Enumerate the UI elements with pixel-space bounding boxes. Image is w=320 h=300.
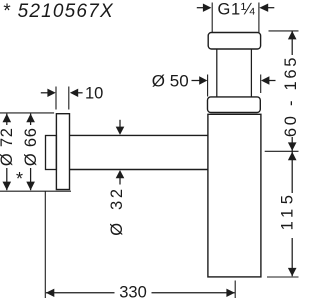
dia72/66 top extension line [0,112,54,114]
dia72 top arrowhead [3,114,12,123]
dia32 up arrowhead [116,170,125,178]
dia66 bottom arrowhead [26,182,35,191]
dia50 dim right arrowhead [261,76,269,84]
inlet pipe left edge [216,49,218,97]
G1 1/4 dim left arrowhead [203,4,212,12]
svg-text:Ø 66: Ø 66 [22,127,40,166]
330 left arrowhead [46,289,54,297]
svg-text:Ø 50: Ø 50 [152,72,189,91]
svg-text:330: 330 [119,283,147,300]
svg-text:Ø 72: Ø 72 [0,127,16,166]
wall escutcheon [56,114,69,190]
lower flange nut [208,97,261,113]
dia72 bottom arrowhead [3,182,12,191]
svg-text:G1¼: G1¼ [218,1,256,19]
dia66 dim line [30,114,32,191]
G1 1/4 dim left extension line [211,3,213,33]
dia32 top leader line [119,120,121,127]
white mask under 60-165 text [284,55,301,137]
dia66 top arrowhead [26,114,35,123]
10 dim right tail line [78,92,83,94]
115 dim bottom extension line [267,276,299,278]
330 dim line [46,292,235,294]
60-165 bottom arrowhead [288,142,297,150]
60-165 top arrowhead [288,31,297,40]
115 top arrowhead [288,152,297,160]
330 dim left extension line [44,191,46,298]
dia32 bottom leader line [119,178,121,185]
white mask under 115 text [281,193,300,238]
10 dim left extension line [55,87,57,110]
330 right arrowhead [226,289,234,297]
horizontal outlet pipe bottom edge [70,169,208,171]
white mask under 330 text [115,285,152,299]
svg-text:60 - 165: 60 - 165 [282,55,300,137]
10 dim right arrowhead [70,89,78,97]
G1 1/4 dim right extension line [258,3,260,33]
G1 1/4 dim right tail line [268,7,274,9]
svg-text:115: 115 [279,191,297,231]
white mask under dia72 text [1,125,14,168]
inlet pipe right edge [250,49,252,97]
dia50 dim right tail line [269,80,276,82]
330 dim right extension line [234,281,236,299]
siphon body [208,114,261,277]
svg-text:10: 10 [85,84,103,102]
10 dim right extension line [68,87,70,110]
10 dim left tail line [41,92,48,94]
10 dim left arrowhead [47,89,55,97]
dia50 dim left extension line [207,75,209,97]
60-165/115 dim middle extension line [265,150,299,152]
G1 1/4 dim right arrowhead [259,4,268,12]
horizontal outlet pipe top edge [70,134,208,136]
dia32 down arrowhead [116,127,125,135]
dia50 dim left tail line [192,80,200,82]
svg-text:Ø 32: Ø 32 [108,186,126,236]
G1 1/4 dim left tail line [197,7,203,9]
dia72 dim line [6,114,8,191]
wall pipe stub [46,136,57,170]
60-165 and 115 dim vertical line [291,31,293,276]
white mask under dia66 text [24,125,37,168]
svg-text:* 5210567X: * 5210567X [3,1,114,22]
60-165 dim top extension line [269,30,299,32]
dia50 dim left arrowhead [199,76,207,84]
upper flange (G1 1/4 union nut) [208,33,260,50]
115 bottom arrowhead [288,268,297,276]
dia72/66 bottom extension line [0,190,71,192]
dia50 dim right extension line [260,75,262,94]
svg-text:*: * [16,169,23,189]
